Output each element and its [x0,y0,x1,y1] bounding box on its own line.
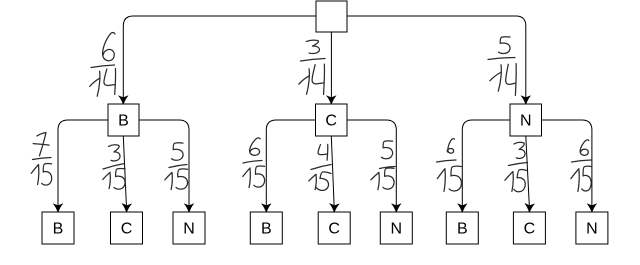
root node (empty box) [316,1,347,32]
svg-text:B: B [53,221,64,238]
svg-text:N: N [183,221,195,238]
arrowhead into leaf N (group 1) [184,204,194,213]
leaf B (group 2) [250,212,282,244]
fraction label 3/14 (root to C) [299,40,325,94]
arrowhead into leaf B (group 2) [262,204,272,213]
wire C to leaf C [331,136,334,206]
svg-text:B: B [457,221,468,238]
fraction label 5/15 (B to leaf N) [165,143,188,190]
leaf B (group 1) [42,212,74,244]
wire N to leaf N [542,120,592,206]
wire B to leaf B [58,120,108,206]
node N (level 1) [510,104,542,136]
wire N to leaf B [462,120,510,206]
wire B to leaf C [123,136,126,206]
fraction label 6/14 (root to B) [90,32,116,96]
arrowhead into node N [521,96,531,105]
svg-text:B: B [261,221,272,238]
fraction label 6/15 (N to leaf B) [437,139,462,192]
arrowhead into leaf B (group 3) [458,204,468,213]
wire root to node N (right branch) [347,16,526,98]
node B (level 1) [108,104,139,136]
fraction label 5/15 (C to leaf N) [371,141,395,190]
leaf N (group 3) [576,212,608,244]
svg-text:N: N [586,221,598,238]
fraction label 4/15 (C to leaf C) [309,144,331,191]
svg-text:C: C [121,221,133,238]
fraction label 7/15 (B to leaf B) [31,132,51,185]
fraction label 6/15 (C to leaf B) [243,138,265,188]
arrowhead into leaf B (group 1) [53,204,63,213]
svg-text:C: C [325,113,337,130]
leaf C (group 1) [111,212,143,244]
fraction label 6/15 (N to leaf N) [571,140,591,192]
arrowhead into node C [327,96,337,105]
wire N to leaf C [526,136,530,206]
wire B to leaf N [139,120,189,206]
arrowhead into node B [119,96,129,105]
arrowhead into leaf C (group 2) [329,204,339,213]
svg-text:B: B [118,113,129,130]
wire C to leaf B [266,120,315,206]
svg-text:N: N [520,113,532,130]
arrowhead into leaf C (group 3) [525,204,535,213]
leaf B (group 3) [446,212,478,244]
leaf N (group 1) [173,212,205,244]
fraction label 3/15 (B to leaf C) [103,145,125,189]
leaf C (group 2) [318,212,350,244]
svg-text:N: N [391,221,403,238]
svg-text:C: C [524,221,536,238]
wire C to leaf N [347,120,396,206]
fraction label 3/15 (N to leaf C) [505,142,528,192]
fraction label 5/14 (root to N) [488,37,516,96]
node C (level 1) [316,104,348,136]
leaf C (group 3) [513,212,545,244]
arrowhead into leaf N (group 3) [587,204,597,213]
wire root to node C (middle branch) [330,32,332,98]
arrowhead into leaf C (group 1) [122,204,132,213]
arrowhead into leaf N (group 2) [392,204,402,213]
svg-text:C: C [328,221,340,238]
wire root to node B (left branch) [123,16,316,98]
leaf N (group 2) [380,212,412,244]
